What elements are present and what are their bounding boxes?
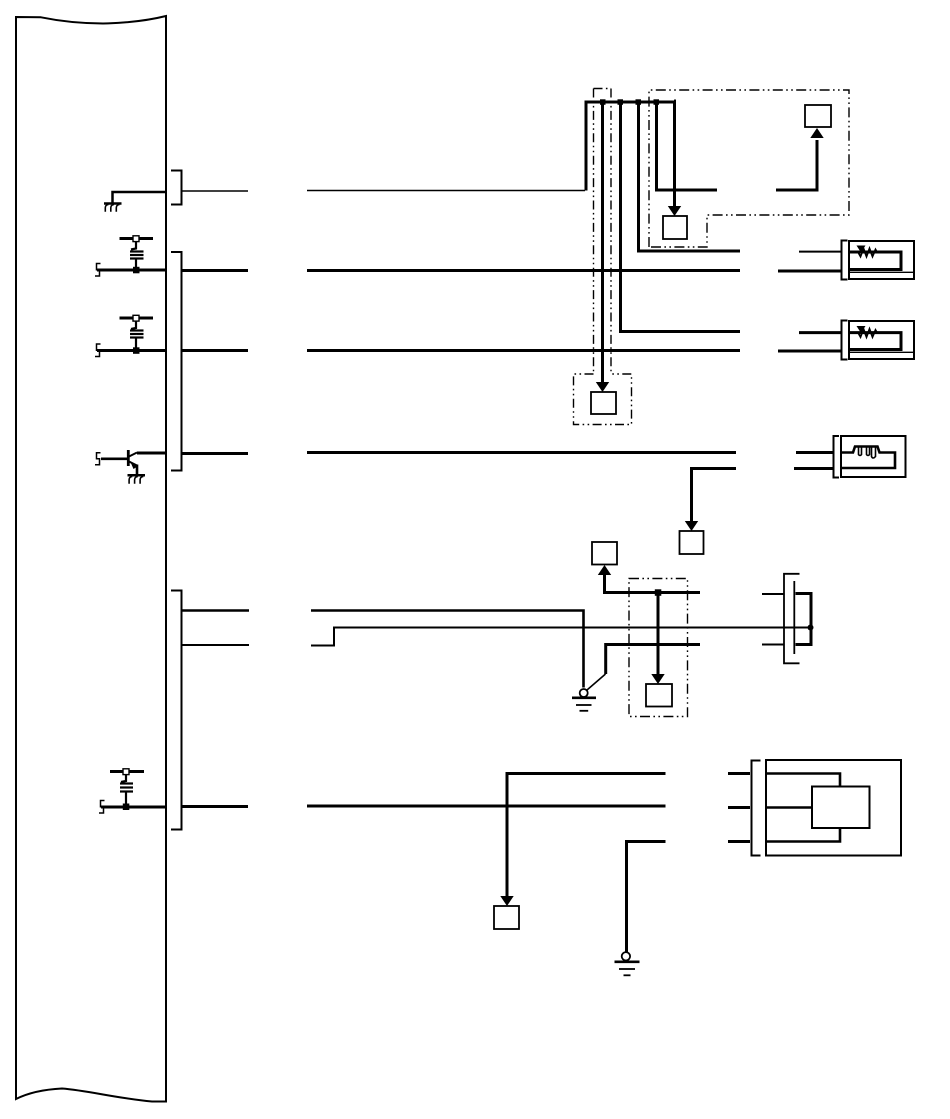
wire drop from J3 then right to sensor 1 [639, 101, 741, 251]
ground G3 [615, 952, 640, 975]
node dot J6 [808, 625, 814, 631]
wire into sensor2 top [799, 331, 842, 334]
actuator coil curls [859, 447, 862, 456]
wire row2 inside module [97, 269, 166, 272]
bus wire at top [585, 101, 675, 104]
C1 bracket [784, 574, 800, 664]
inline connector square S4 [592, 542, 617, 565]
wire row2 from connector [182, 269, 248, 272]
wire from J5 down to S6 [657, 593, 660, 676]
blower internal wire top [766, 774, 840, 787]
C1 stub wire top [762, 593, 784, 595]
wire from bus end down to S2 [673, 101, 677, 207]
capacitor/filter symbol row2 inside module [120, 236, 154, 268]
blower internal wire bottom [766, 828, 840, 842]
wire row1 riser to bus [585, 101, 588, 191]
sensor1 internal loop [849, 252, 901, 270]
inline connector square S6 [646, 684, 672, 707]
inline connector square S2 [663, 216, 687, 239]
wire row4 from connector [182, 452, 248, 455]
node dot J1 [600, 99, 606, 105]
wire R with ground drop [627, 842, 666, 953]
node dot row2 [133, 267, 140, 274]
node dot J5 [655, 589, 662, 596]
big dash-dot harness outline [649, 90, 849, 247]
sensor2 thermistor zigzag [858, 329, 878, 337]
dash-dot box around S6 [629, 579, 688, 717]
ground G1 inside module (row 1) [104, 192, 166, 212]
actuator connector bracket [834, 436, 840, 478]
wire to S4 [605, 575, 701, 593]
inline connector square S7 [494, 906, 519, 929]
arrowhead up into connector square S4 [598, 565, 611, 575]
wire row2 long run [307, 269, 740, 272]
arrowhead into connector square S2 [668, 206, 681, 216]
wire-end squiggle row2 [95, 264, 101, 277]
Q1 base wire [101, 457, 127, 460]
actuator assembly (row4) [834, 436, 906, 478]
sensor 1 assembly (row2) [842, 241, 915, 280]
sensor2 internal loop [849, 333, 901, 350]
sensor1 body box [849, 241, 914, 279]
ground G2 [572, 689, 596, 711]
blower outer box [766, 760, 901, 856]
in-line connector C1 (middle right) [762, 574, 814, 664]
shielded-wire dash-dot pair [594, 89, 612, 375]
wire row4 to actuator [796, 451, 833, 454]
arrowhead into connector square S6 [651, 674, 664, 684]
wire-end squiggle row3 [95, 344, 101, 357]
node dot J2 [618, 99, 624, 105]
node dot row5 [123, 804, 130, 811]
wire B (module row, y645 jog to 627.5) [182, 644, 249, 646]
wire row3 inside module [97, 349, 166, 352]
filter symbol row5 inside module [110, 769, 144, 805]
wire row3 long run [307, 349, 740, 352]
ground strap diagonal [587, 674, 606, 690]
node dot J3 [636, 99, 642, 105]
sensor2 body box [849, 321, 914, 359]
wire branch down to S5 [692, 469, 737, 523]
wire row3 from connector [182, 349, 248, 352]
capacitor/filter symbol row3 inside module [120, 315, 154, 348]
C1 stub wire bottom [762, 644, 784, 646]
actuator internal loop [841, 447, 895, 469]
Q1 base bar [127, 450, 130, 466]
connector bracket B1 on module edge [171, 171, 182, 205]
wire row5 from connector [182, 805, 248, 808]
Q1 collector [129, 453, 137, 457]
inline connector square S1 [591, 392, 616, 414]
transistor Q1 inside module (row4) [95, 450, 138, 475]
actuator return wire [794, 467, 833, 470]
sensor1 connector bracket [842, 241, 848, 280]
inline connector square S3 [805, 105, 831, 127]
stub wires to blower assembly [728, 772, 750, 775]
C1 mating bar [793, 581, 795, 654]
wire drop from J2 then right to sensor 2 [621, 101, 741, 332]
node dot row3 [133, 347, 140, 354]
wire P to S7 [507, 774, 666, 898]
wire row5 long run [307, 805, 666, 808]
arrowhead into connector square S7 [500, 896, 513, 906]
arrowhead up into connector square S3 [810, 128, 823, 138]
connector bracket B2 on module edge [171, 252, 182, 471]
sensor2 connector bracket [842, 321, 848, 360]
wire drop from J4 then right (row1 continuation) [657, 101, 718, 190]
inline connector square S5 [680, 531, 704, 554]
blower internal wire middle [766, 806, 812, 809]
wire into sensor1 top [799, 251, 842, 253]
blower inner box [812, 787, 870, 829]
wire-end squiggle row4 [95, 453, 101, 465]
sensor 2 assembly (row3) [842, 321, 915, 360]
actuator body box [841, 436, 906, 477]
wire row4 long run [307, 451, 736, 454]
arrowhead into connector square S1 [596, 382, 609, 392]
Q1 emitter with arrow [129, 462, 137, 466]
blower assembly (bottom right) [752, 760, 902, 856]
wire row2 to sensor 1 [778, 270, 842, 273]
ECU module body (torn-edge box) [16, 16, 166, 1102]
wire row4 inside module [137, 452, 166, 455]
wire A (module row, y610) [182, 609, 249, 612]
wire-end squiggle row5 [99, 801, 105, 814]
wire row3 to sensor 2 [778, 350, 842, 353]
wire row1 long run [307, 190, 585, 192]
wire segment to S3 [776, 140, 817, 190]
ground G4 under transistor [128, 475, 146, 483]
connector bracket B3 on module edge [171, 591, 182, 830]
sensor1 thermistor zigzag [858, 249, 878, 257]
shield terminator dash-dot box [574, 374, 632, 425]
arrowhead into connector square S5 [685, 521, 698, 531]
wire with ground strap (y644.5) [606, 645, 700, 675]
node dot J4 [654, 99, 660, 105]
C1 jumper loop [796, 594, 812, 645]
wire drop from J1 into shield [601, 101, 604, 383]
blower connector bracket [752, 761, 761, 856]
wire row5 inside module [101, 806, 166, 809]
wire row1 from connector [182, 190, 248, 192]
